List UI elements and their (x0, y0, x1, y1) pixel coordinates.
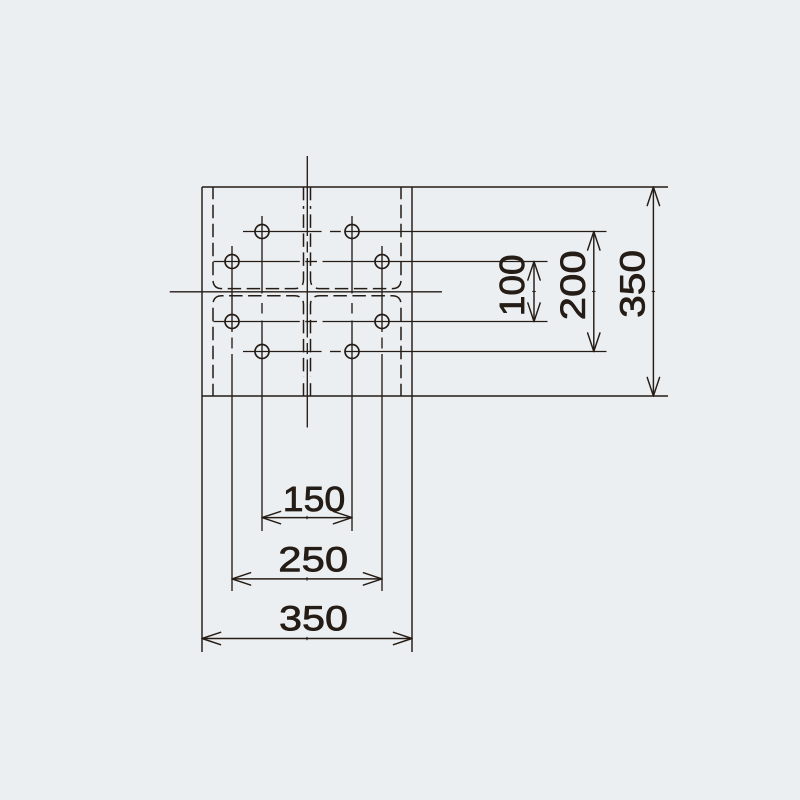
bolt column line inner-right (x=352, chain) (351, 216, 353, 531)
dim text 350 right (rotated) (620, 251, 645, 316)
hidden member outline lower-right (dashed rounded) (311, 296, 402, 396)
dim text 250 (280, 547, 346, 572)
plate top edge + extension line (202, 186, 668, 188)
plate bottom edge + extension line (202, 395, 668, 397)
bolt row line 1 (y=231.5, chain) (243, 231, 607, 233)
bolt hole row3 left (225, 315, 239, 329)
dim text 150 (286, 487, 344, 512)
bolt hole row1 left (255, 225, 269, 239)
bolt hole row4 left (255, 345, 269, 359)
dimension line 200 (right, vertical) (588, 232, 600, 352)
bolt hole row4 right (345, 345, 359, 359)
bolt column line inner-left (x=262, chain) (261, 216, 263, 531)
plate left edge + extension line (201, 187, 203, 652)
bolt column line outer-left (x=232, chain) (231, 246, 233, 591)
hidden member outline lower-left (dashed rounded) (213, 296, 304, 396)
bolt hole row2 right (375, 255, 389, 269)
dimension line 350 (bottom, horizontal) (202, 632, 412, 644)
bolt row line 3 (y=321.5, chain) (214, 321, 548, 323)
bolt hole row3 right (375, 315, 389, 329)
dim text 100 (rotated) (500, 256, 525, 313)
hidden member outline upper-left (dashed rounded) (213, 187, 304, 289)
hidden member outline upper-right (dashed rounded) (311, 187, 402, 289)
hidden member inner edge top dashes (304, 187, 311, 396)
bolt column line outer-right (x=382, chain) (381, 246, 383, 591)
dim text 350 bottom (281, 606, 347, 631)
bolt row line 4 (y=351.5, chain) (243, 351, 607, 353)
dimension line 150 (bottom, horizontal) (262, 511, 352, 523)
dimension line 250 (bottom, horizontal) (232, 573, 382, 585)
dim text 200 (rotated) (560, 252, 585, 318)
bolt row line 2 (y=261.5, chain) (214, 261, 548, 263)
dimension line 100 (right, vertical) (528, 262, 540, 322)
bolt hole row1 right (345, 225, 359, 239)
vertical center line (chain) (306, 156, 308, 428)
dimension line 350 (right, vertical) (647, 187, 659, 396)
plate right edge + extension line (411, 187, 413, 652)
horizontal center line (170, 291, 442, 293)
bolt hole row2 left (225, 255, 239, 269)
